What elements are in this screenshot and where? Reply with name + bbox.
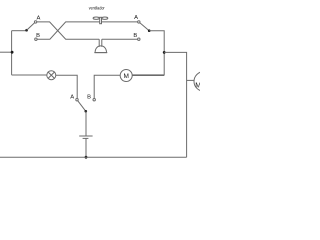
svg-text:M: M — [123, 73, 128, 80]
wire left edge stub — [0, 51, 12, 53]
terminal A left — [34, 21, 36, 23]
node junction right rail — [163, 51, 166, 54]
wire branch to far right — [164, 52, 186, 157]
wire lamp row left — [12, 74, 47, 76]
lamp cross — [48, 72, 54, 78]
bell base — [94, 52, 107, 54]
terminal A right — [138, 21, 140, 23]
bell lead right — [101, 39, 103, 47]
switch S3 blade — [78, 101, 86, 112]
terminal B left — [35, 38, 37, 40]
battery short plate — [83, 137, 89, 139]
wire lamp to bottom A terminal — [56, 75, 77, 98]
wire to switch common — [12, 30, 27, 32]
svg-text:A: A — [36, 16, 40, 22]
fan hub — [100, 17, 102, 23]
node switch S2 common — [148, 29, 151, 32]
svg-text:A: A — [134, 15, 138, 21]
terminal B right — [138, 38, 140, 40]
motor M1 — [120, 70, 132, 82]
wire S2 to right rail — [132, 31, 164, 75]
svg-text:A: A — [70, 95, 74, 101]
wire stub to right component — [187, 79, 194, 81]
bell (timbre) dome — [95, 46, 106, 53]
svg-text:B: B — [133, 33, 137, 39]
svg-text:ventilador: ventilador — [89, 5, 105, 10]
node switch S1 common — [25, 29, 28, 32]
wire B-left to upper row (crossing) — [37, 22, 100, 39]
wire A-left to lower row (crossing) — [37, 22, 99, 39]
wire bottom rail — [0, 156, 187, 158]
fan blade left — [93, 17, 99, 19]
node junction bottom — [85, 156, 88, 159]
svg-text:B: B — [36, 33, 40, 39]
svg-text:B: B — [87, 95, 91, 101]
wire motor right — [132, 75, 164, 77]
fan blade right — [102, 17, 108, 19]
wire to battery — [85, 111, 87, 136]
wire fan to right A terminal — [102, 21, 138, 23]
wire motor to bottom B terminal — [94, 75, 120, 98]
motor M2 (right edge, clipped) — [194, 72, 214, 92]
switch S2 blade — [140, 23, 149, 31]
wire battery to bottom rail — [85, 138, 87, 157]
switch S1 blade — [27, 23, 35, 31]
bell lead left — [98, 39, 100, 47]
terminal B bottom — [93, 99, 95, 101]
wire bell to right B terminal — [102, 38, 138, 40]
terminal A bottom — [76, 99, 78, 101]
node switch S3 common — [85, 110, 88, 113]
wire left vertical — [11, 31, 13, 75]
lamp L1 — [47, 71, 56, 80]
battery long plate — [79, 135, 92, 137]
node junction left — [11, 51, 14, 54]
svg-text:M: M — [195, 83, 200, 90]
